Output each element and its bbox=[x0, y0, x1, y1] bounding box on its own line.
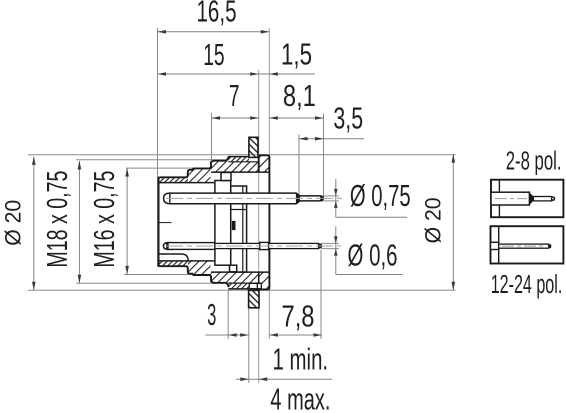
figure 12-24 pol. pin tip bbox=[549, 244, 552, 248]
lower pin nose base bbox=[166, 243, 168, 250]
lower pin tip dark bbox=[318, 243, 322, 248]
dimension 16,5 bbox=[158, 31, 270, 33]
svg-text:Ø 0,6: Ø 0,6 bbox=[348, 239, 398, 273]
extension line x=211.2 bbox=[211, 113, 213, 160]
white gap top behind panel bbox=[249, 158, 258, 162]
shell hatching M16 wall bottom bbox=[188, 261, 211, 274]
leader Ø 0,6 bbox=[321, 242, 339, 244]
svg-text:7,8: 7,8 bbox=[282, 300, 315, 334]
insert block rear bbox=[231, 186, 247, 272]
extension line x=269.3 bbox=[268, 28, 270, 339]
inner bore line top front bbox=[158, 182, 214, 184]
dimension 1,5 bbox=[259, 73, 315, 75]
svg-text:3,5: 3,5 bbox=[333, 102, 363, 136]
svg-text:8,1: 8,1 bbox=[283, 79, 316, 113]
inner bore line top rear bbox=[211, 171, 269, 173]
svg-text:15: 15 bbox=[203, 38, 224, 72]
extension line y=167.8 M16 top bbox=[126, 167, 211, 169]
extension line y=274.5 M16 bottom bbox=[124, 274, 211, 276]
extension line front face x=157.5 bbox=[157, 28, 159, 177]
figure 2-8 pol. pin tip bbox=[552, 197, 556, 201]
dimension 7 bbox=[212, 117, 259, 119]
figure 2-8 pol. pin barrel bbox=[491, 192, 529, 205]
lower pin centerline bbox=[166, 245, 341, 247]
extension line y=283.3 M18 bottom bbox=[76, 282, 232, 284]
dimension 1 min. / 4 max. panel thickness bbox=[236, 378, 332, 380]
extension line y=154.8 flange top bbox=[28, 154, 456, 156]
svg-text:2-8 pol.: 2-8 pol. bbox=[506, 148, 562, 176]
dimension Ø 20 right bbox=[452, 154, 454, 290]
upper pin nose base bbox=[169, 193, 171, 204]
figure 12-24 pol. pin collar bbox=[491, 242, 499, 249]
flange top hatched bbox=[259, 156, 270, 172]
lower pin rod rear bbox=[269, 243, 319, 248]
shell hatching M18 bottom strip bbox=[211, 272, 228, 283]
panel section top bbox=[249, 137, 258, 157]
figure 12-24 pol. box bbox=[491, 226, 564, 263]
figure 12-24 pol. pin rod bbox=[499, 244, 549, 248]
centerline axis bbox=[160, 222, 172, 224]
extension line x=299 pin taper bbox=[298, 135, 300, 195]
extension line x=323.5 pin tip top bbox=[323, 114, 325, 200]
insert tab bottom bbox=[230, 265, 237, 272]
inner bore line bottom front bbox=[158, 260, 214, 262]
leader Ø 0,75 bbox=[324, 195, 339, 197]
lower pin rod front bbox=[168, 243, 215, 250]
extension line x=321 lower pin tip bbox=[320, 250, 322, 339]
upper pin shoulder dark bbox=[296, 193, 300, 204]
upper pin centerline bbox=[166, 197, 343, 199]
extension line y=290.3 flange bottom bbox=[28, 289, 456, 291]
svg-text:3: 3 bbox=[207, 298, 216, 332]
extension line y=160.8 M18 top bbox=[76, 159, 228, 161]
svg-text:Ø 20: Ø 20 bbox=[0, 200, 25, 246]
svg-text:Ø 20: Ø 20 bbox=[421, 197, 446, 243]
dimension Ø 20 left bbox=[33, 156, 35, 290]
figure 2-8 pol. pin taper bbox=[529, 192, 533, 205]
shell hatching strip top bbox=[228, 162, 258, 172]
extension line x=228.2 step bbox=[227, 290, 229, 339]
lower pin bullet bbox=[163, 243, 172, 250]
front face bbox=[157, 177, 159, 267]
insert tab top bbox=[221, 173, 231, 181]
figure 2-8 pol. pin thin bbox=[533, 197, 551, 201]
insert block front bbox=[215, 181, 231, 266]
step bump bottom hatched bbox=[228, 283, 249, 289]
M18 step top edge at bottom bbox=[228, 282, 261, 284]
svg-text:7: 7 bbox=[229, 79, 240, 113]
svg-text:M16 x 0,75: M16 x 0,75 bbox=[89, 171, 121, 268]
flange outline bbox=[257, 155, 270, 289]
dimension 15 bbox=[158, 73, 259, 75]
svg-text:4 max.: 4 max. bbox=[270, 383, 330, 413]
svg-text:16,5: 16,5 bbox=[197, 0, 237, 29]
upper pin bbox=[164, 193, 324, 204]
insert key dark bbox=[232, 221, 236, 230]
shell hatching front wall top bbox=[158, 178, 188, 183]
dimension 3 bbox=[206, 334, 249, 336]
step bump top hatched bbox=[228, 157, 249, 162]
svg-text:12-24 pol.: 12-24 pol. bbox=[491, 271, 563, 299]
flange bottom hatched bbox=[259, 272, 270, 289]
svg-text:Ø 0,75: Ø 0,75 bbox=[350, 179, 411, 213]
figure 2-8 pol. box bbox=[491, 180, 563, 218]
inner bore line bottom rear bbox=[211, 271, 269, 273]
shell outline top bbox=[158, 157, 228, 180]
upper pin tip dark bbox=[320, 196, 323, 201]
shell hatching M16 wall top bbox=[188, 169, 211, 182]
shell hatching strip bottom bbox=[228, 272, 258, 283]
shell hatching front wall bottom bbox=[158, 261, 188, 266]
cavity ledge below lower pin bbox=[159, 254, 188, 261]
extension line x=248.8 panel front bbox=[248, 309, 250, 383]
shell hatching M18 top strip bbox=[211, 161, 228, 172]
lower pin rod middle bbox=[215, 243, 260, 248]
panel section bottom bbox=[249, 290, 259, 307]
white gap bottom behind panel bbox=[249, 283, 261, 288]
svg-text:1 min.: 1 min. bbox=[273, 343, 329, 377]
dimension 8,1 bbox=[269, 117, 323, 119]
M18 step bottom edge at top bbox=[228, 161, 258, 163]
dimension M18 x 0,75 bbox=[78, 161, 80, 283]
dimension 3,5 bbox=[299, 138, 364, 140]
svg-text:1,5: 1,5 bbox=[281, 38, 312, 72]
extension line x=258.7 bbox=[258, 70, 260, 383]
dimension M16 x 0,75 bbox=[126, 168, 128, 274]
dimension 7,8 bbox=[269, 334, 322, 336]
lower pin collar bbox=[260, 242, 269, 249]
flange front face bottom part bbox=[258, 272, 260, 283]
shell outline bottom bbox=[158, 264, 228, 287]
svg-text:M18 x 0,75: M18 x 0,75 bbox=[42, 171, 74, 268]
